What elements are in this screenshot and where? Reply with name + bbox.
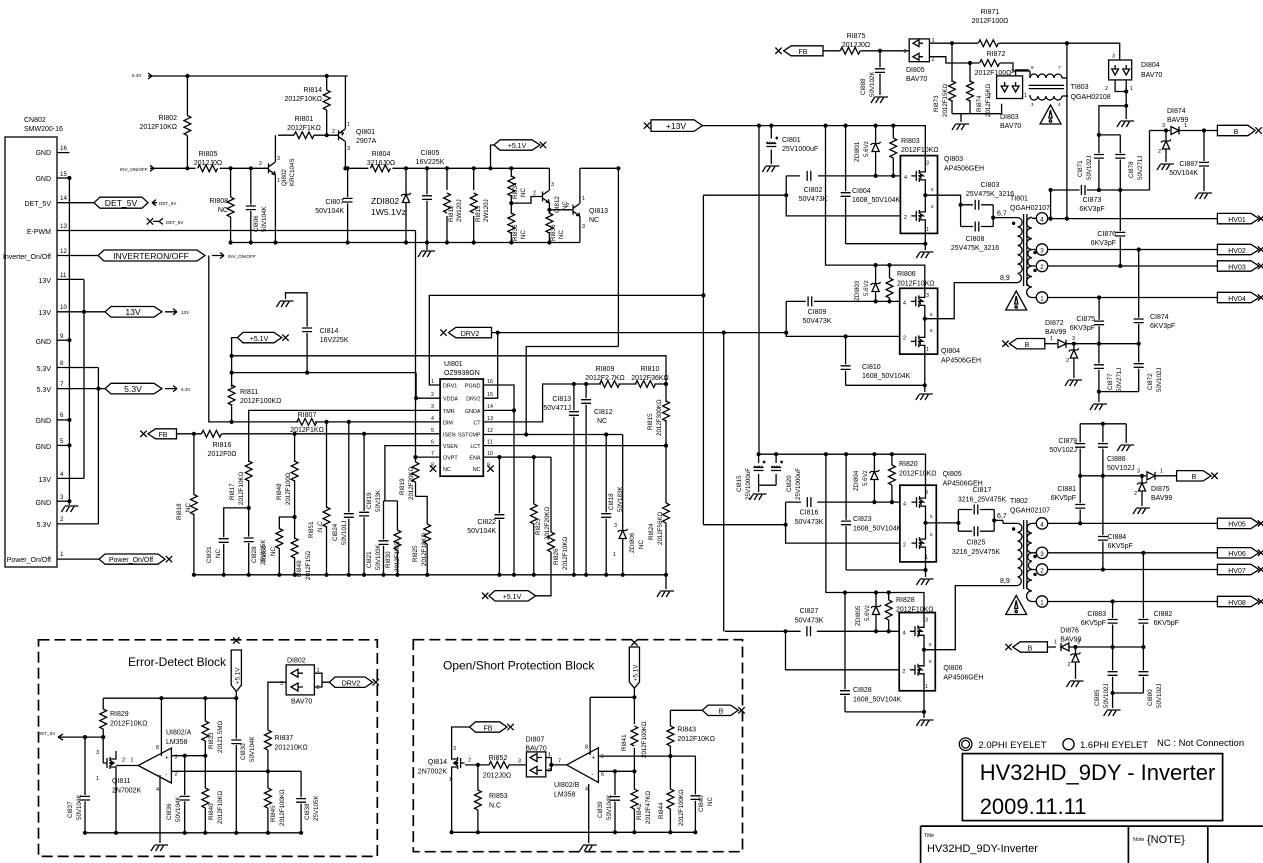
pin 11 13V [39,272,84,285]
wire DI802 to DRV2 [314,673,329,687]
resistor RI803 [890,126,939,178]
pin 15 GND [35,171,71,183]
resistor RI874 [967,63,992,117]
diode DI874 lower half [1157,128,1174,170]
capacitor CI827 [795,608,824,636]
svg-text:RI814: RI814 [303,87,322,94]
resistor RI875 [840,33,870,54]
capacitor CI871 [1077,135,1104,190]
svg-text:2012F10KΩ: 2012F10KΩ [562,536,569,570]
resistor RI872 [975,51,1012,77]
svg-text:QI803: QI803 [944,156,963,163]
svg-text:RI818: RI818 [176,503,183,520]
svg-text:8,9: 8,9 [1000,275,1010,282]
svg-text:RI853: RI853 [489,793,508,800]
svg-text:6,7: 6,7 [997,513,1007,520]
svg-text:CI818: CI818 [608,493,615,510]
svg-text:B: B [719,709,724,716]
svg-text:3: 3 [904,49,907,55]
eyelet 2.0PHI symbol [959,738,972,751]
svg-text:1: 1 [449,777,452,783]
capacitor CI807 [315,166,352,244]
capacitor CI821 [366,501,389,577]
svg-text:RI801: RI801 [295,116,314,123]
svg-text:6KV3pF: 6KV3pF [1091,240,1116,247]
svg-text:RI807: RI807 [298,412,317,419]
svg-text:8: 8 [585,745,588,751]
svg-text:2012F10KΩ: 2012F10KΩ [110,721,148,728]
svg-text:CN802: CN802 [24,117,46,124]
transistor QI811 2N7002K [96,737,142,835]
capacitor CI875 [1070,298,1104,344]
op-amp UI802/B [554,745,604,799]
wire VDDA pin2 [232,373,441,399]
wire +13V rail [702,126,925,156]
wire 13V to QI806 drain rail [826,454,924,612]
svg-text:5.3V: 5.3V [132,73,142,78]
svg-text:5.6Vz: 5.6Vz [862,470,869,486]
resistor RI853 NC [475,765,508,835]
wire QI804 pin1 ground [846,354,925,392]
wire DRV1 pin1 up and right [429,295,703,385]
svg-text:CIB24: CIB24 [332,523,339,541]
svg-text:HV08: HV08 [1228,600,1246,607]
svg-text:CI809: CI809 [808,309,827,316]
svg-text:+5.1V: +5.1V [632,664,639,681]
svg-text:1.6PHI EYELET: 1.6PHI EYELET [1080,740,1148,751]
svg-text:RI802: RI802 [158,115,177,122]
capacitor CI887 [1169,128,1209,191]
node HV03 flag [1217,261,1263,272]
node B flag bottom [1005,642,1047,653]
wire open/short bottom rail [452,832,696,843]
svg-text:50V183K: 50V183K [617,486,624,512]
svg-text:CI836: CI836 [166,803,173,820]
wire coupling row y190 [1051,131,1150,191]
node HV08 flag [1217,596,1263,607]
svg-text:RI809: RI809 [596,366,615,373]
svg-text:4: 4 [904,175,907,181]
svg-text:NC: NC [215,549,222,558]
capacitor CI837 [67,737,90,835]
svg-text:Power_On/Off: Power_On/Off [7,557,51,564]
svg-text:4: 4 [585,787,588,793]
wire CI885 CI880 join ground [1113,693,1144,708]
resistor RI818 NC [176,434,197,577]
svg-text:14: 14 [487,404,493,410]
svg-text:N.C: N.C [317,521,324,532]
svg-text:HV02: HV02 [1228,248,1246,255]
svg-text:CI840: CI840 [698,795,705,812]
svg-text:4: 4 [60,471,64,478]
svg-text:CI871: CI871 [1077,160,1084,177]
zener ZDI806 NC [613,435,645,577]
svg-text:50V33K: 50V33K [375,489,382,512]
capacitor CI888 [860,51,885,97]
svg-text:AP4506GEH: AP4506GEH [941,358,981,365]
svg-text:2: 2 [1134,491,1137,497]
ground error block [151,845,168,851]
wire FB to ISEN pin5 [177,433,441,435]
wire opamp pin2 [171,770,301,772]
svg-text:2012J0Ω: 2012J0Ω [842,42,870,49]
svg-text:3: 3 [277,156,280,162]
zener ZDI803 [854,265,881,303]
capacitor CI823 [841,454,928,577]
wire DI807 join to opamp [546,758,567,771]
wire PGND GNDA ground column [483,385,514,575]
capacitor CI886 [1098,424,1135,476]
node HV02 flag [1217,244,1263,255]
wire gate loop and pin2 [703,176,900,216]
svg-text:1: 1 [925,555,928,561]
svg-text:DI807: DI807 [526,737,545,744]
svg-text:ZDI806: ZDI806 [629,532,636,553]
svg-text:B: B [1234,129,1239,136]
svg-text:50V271J: 50V271J [1137,156,1144,180]
svg-text:3: 3 [96,750,99,756]
svg-text:50V271J: 50V271J [1116,368,1123,392]
node B flag top [1217,125,1261,136]
svg-text:+5.1V: +5.1V [508,143,527,150]
capacitor CI840 NC [690,791,714,834]
svg-text:CI887: CI887 [1179,161,1198,168]
svg-text:BAV99: BAV99 [1167,117,1188,124]
svg-text:INV_ON/OFF: INV_ON/OFF [120,167,148,172]
svg-text:2: 2 [1068,662,1071,668]
diode DI876 BAV99 [1054,628,1082,652]
svg-text:INV_ON/OFF: INV_ON/OFF [228,254,256,259]
svg-text:2012F10KΩ: 2012F10KΩ [238,471,245,505]
resistor RI812 2W120J [444,166,463,244]
svg-text:14: 14 [60,195,67,202]
svg-text:2012J0Ω: 2012J0Ω [194,160,222,167]
capacitor CI873 [1079,185,1104,213]
node B flag block [670,705,744,716]
svg-text:5: 5 [601,754,604,760]
diode DI874 BAV99 [1150,108,1218,135]
svg-text:12: 12 [487,428,493,434]
capacitor CI824 [332,422,354,577]
svg-text:TI802: TI802 [1010,498,1028,505]
svg-text:1: 1 [277,178,280,184]
svg-text:NC: NC [558,230,565,239]
svg-text:25V1000uF: 25V1000uF [782,146,818,153]
svg-text:2: 2 [1105,86,1108,92]
svg-text:RI843: RI843 [677,727,696,734]
transistor QI801 2907A [332,76,377,170]
svg-text:CI801: CI801 [782,137,801,144]
svg-text:RI825: RI825 [412,545,419,562]
wire CT pin13 chain [483,384,666,422]
wire HV04 row [1048,297,1218,299]
svg-text:7: 7 [558,759,561,765]
svg-text:50V473K: 50V473K [803,318,832,325]
svg-text:CI831: CI831 [206,546,213,563]
svg-text:3: 3 [926,161,929,167]
svg-text:6KV3pF: 6KV3pF [1079,206,1104,213]
wire QI806 pin2 [786,631,900,670]
resistor RI841 [621,697,648,773]
wire RI873 RI874 join + ground [952,104,1002,122]
svg-text:QI811: QI811 [112,778,131,785]
svg-text:1: 1 [131,758,134,764]
node Power_On/Off flag [99,554,172,564]
svg-text:DRV2: DRV2 [466,397,480,403]
svg-text:RI828: RI828 [896,597,915,604]
svg-text:2012F100Ω: 2012F100Ω [285,472,292,505]
resistor RI837 [265,682,308,771]
wire opamp pin5 [598,756,695,791]
node 5.3V flag [105,383,162,394]
resistor RI826 [536,457,569,596]
svg-text:DI872: DI872 [1045,320,1064,327]
svg-text:5: 5 [930,312,933,317]
svg-text:RI815: RI815 [647,413,654,430]
svg-text:50V104K: 50V104K [261,206,268,232]
wire CI809 gate row [786,300,900,302]
svg-text:1: 1 [925,684,928,690]
transistor QI813 NC [549,168,608,242]
svg-text:CI884: CI884 [1108,534,1127,541]
svg-text:VDDA: VDDA [443,397,458,403]
capacitor CI820 electrolytic [771,454,802,500]
svg-text:RI826: RI826 [553,548,560,565]
svg-text:5.6Vz: 5.6Vz [864,605,871,621]
eyelet 1.6PHI symbol [1063,739,1074,750]
node HV07 flag [1217,564,1263,575]
capacitor CI819 [359,434,382,577]
svg-text:UI801: UI801 [444,361,463,368]
svg-text:3216_25V475K: 3216_25V475K [958,497,1007,504]
svg-text:2: 2 [431,392,434,398]
wire error bottom rail [85,833,301,843]
svg-text:HV07: HV07 [1228,568,1246,575]
svg-text:25V475K_3216: 25V475K_3216 [951,245,999,252]
resistor RI835 NC [508,201,527,245]
svg-text:1: 1 [1160,469,1163,475]
node DRV2 flag [440,327,491,338]
svg-text:3: 3 [1072,336,1075,342]
svg-text:QI806: QI806 [943,665,962,672]
svg-text:CI812: CI812 [594,409,613,416]
svg-text:50V473K: 50V473K [795,519,824,526]
svg-text:DET_5V: DET_5V [25,201,52,208]
resistor RI833 [202,698,224,756]
capacitor CI817 [958,487,1007,515]
diode DI875 lower half [1133,474,1150,514]
svg-text:CI839: CI839 [597,801,604,818]
svg-text:4: 4 [1058,102,1061,107]
op-amp UI802/A [138,730,192,794]
diode DI872 BAV99 [1045,320,1139,348]
svg-text:OZ9938GN: OZ9938GN [444,370,480,377]
svg-text:2012F10KΩ: 2012F10KΩ [897,281,935,288]
svg-text:2N7002K: 2N7002K [418,769,448,776]
svg-text:25V1000uF: 25V1000uF [745,468,752,500]
svg-text:GND: GND [35,150,51,157]
svg-text:GND: GND [35,339,51,346]
resistor RI829 [100,698,148,739]
node FB flag block [470,722,514,733]
svg-text:2012J0Ω: 2012J0Ω [483,773,511,780]
svg-text:KRC104S: KRC104S [289,158,296,186]
svg-text:{NOTE}: {NOTE} [1147,834,1185,846]
svg-text:50V473K: 50V473K [795,618,824,625]
wire TMR pin3 [249,410,440,461]
svg-text:NC: NC [520,188,527,197]
mosfet pair QI806 AP4506GEH [899,613,983,691]
pin 13 E-PWM [27,223,416,236]
wire bottom rail y242 [231,242,580,244]
svg-text:DI804: DI804 [1141,62,1160,69]
svg-text:50V101J: 50V101J [341,521,348,545]
resistor RI801 [278,116,336,139]
wire rail to SSTCMP loop [526,168,618,434]
wire +5.1V rail to CT chain [232,356,666,384]
wire VSEN pin6 [384,446,441,501]
svg-text:2N7002K: 2N7002K [112,788,142,795]
svg-text:1W5.1Vz: 1W5.1Vz [371,207,406,217]
capacitor CI885 [1094,647,1118,708]
ground below DI804 [1117,121,1134,127]
op-amp U801 OZ9938GN box [440,379,483,476]
resistor RI814 [284,74,330,137]
node FB flag [140,429,176,439]
svg-text:13V: 13V [39,477,52,484]
svg-text:BAV70: BAV70 [1141,72,1162,79]
svg-text:-: - [165,771,167,778]
svg-text:DIM: DIM [443,420,453,426]
svg-text:Error-Detect Block: Error-Detect Block [128,655,227,669]
wire QI814 to RI852 [465,764,489,766]
svg-text:DI805: DI805 [906,67,925,74]
svg-text:50V104K: 50V104K [76,794,83,820]
pin 9 GND [35,333,71,346]
svg-text:5: 5 [930,514,933,519]
wire lower 13V rail [759,454,926,485]
ground open/short block [580,845,597,851]
ground below CI888 [871,97,888,103]
ground below QI804 [916,394,933,400]
svg-text:DET_5V: DET_5V [105,198,138,208]
svg-text:2012F100KΩ: 2012F100KΩ [279,789,286,826]
svg-text:NC: NC [638,540,645,549]
svg-text:CI828: CI828 [853,687,872,694]
wire DI805 pin1 row [929,43,1119,60]
svg-text:CI886: CI886 [1107,456,1126,463]
dual diode DI805 BAV70 [904,38,935,83]
warning triangle TI801 [1006,291,1027,310]
capacitor CI880 [1138,647,1163,708]
svg-text:1608_50V104K: 1608_50V104K [862,373,911,380]
svg-text:TMR: TMR [443,409,455,415]
pin 16 GND [35,145,69,157]
ground below QI805 [917,579,934,585]
mosfet pair QI803 AP4506GEH [900,156,984,234]
svg-text:RI805: RI805 [199,151,218,158]
svg-text:RI837: RI837 [275,735,294,742]
pin 2 5.3V [37,516,99,529]
svg-text:5.3V: 5.3V [37,522,52,529]
svg-text:BAV70: BAV70 [525,746,546,753]
capacitor CI802 [799,171,828,203]
svg-text:TI801: TI801 [1010,196,1028,203]
capacitor CI803 [961,182,1015,210]
svg-text:4: 4 [1040,521,1044,528]
svg-text:AP4506GEH: AP4506GEH [944,166,984,173]
svg-text:HV03: HV03 [1228,264,1246,271]
svg-text:RI823: RI823 [535,518,542,535]
svg-text:PGND: PGND [465,384,481,390]
svg-text:50V102J: 50V102J [1049,447,1077,454]
capacitor CI810 [841,334,911,385]
svg-text:3: 3 [1031,102,1034,107]
svg-text:50V104K: 50V104K [606,794,613,820]
resistor RI845 [265,771,287,835]
svg-text:50V104K: 50V104K [1169,170,1198,177]
svg-text:2: 2 [903,543,906,549]
wire HV01 row [1048,43,1218,218]
svg-text:RI848: RI848 [276,483,283,500]
svg-text:9: 9 [1031,65,1034,70]
svg-text:9: 9 [60,333,64,340]
svg-text:CI827: CI827 [800,608,819,615]
svg-text:CI814: CI814 [320,328,339,335]
svg-text:2: 2 [988,93,991,99]
svg-text:6: 6 [601,772,604,778]
svg-text:CI813: CI813 [552,396,571,403]
svg-text:CI876: CI876 [1097,231,1116,238]
resistor RI850 NC [261,517,295,577]
error-detect dashed box [39,640,378,857]
svg-text:RI844: RI844 [658,802,665,819]
svg-text:2: 2 [468,758,471,764]
svg-text:50V104K: 50V104K [249,736,256,762]
pin 3 GND [35,494,71,507]
svg-text:2012F300KΩ: 2012F300KΩ [656,399,663,436]
node +5.1V vertical flag block [629,639,639,697]
svg-text:QI801: QI801 [356,129,375,136]
svg-text:BAV70: BAV70 [1000,123,1021,130]
resistor RI813 2W120J [470,166,490,244]
svg-text:3: 3 [347,146,350,152]
svg-text:1: 1 [1130,86,1133,92]
svg-text:6KV3pF: 6KV3pF [1150,323,1175,330]
svg-text:5: 5 [931,204,934,209]
svg-text:1608_50V104K: 1608_50V104K [853,526,902,533]
svg-text:5: 5 [60,438,64,445]
svg-text:B: B [1192,474,1197,481]
svg-text:2: 2 [904,215,907,221]
drawing frame table [921,826,1263,863]
svg-text:50V471J: 50V471J [543,405,571,412]
svg-text:16V225K: 16V225K [416,159,445,166]
wire HV08 row [1048,601,1218,603]
svg-text:LCT: LCT [470,444,481,450]
svg-text:6KV5pF: 6KV5pF [1051,495,1076,502]
node HV06 flag [1217,548,1263,559]
svg-text:CI822: CI822 [477,519,496,526]
svg-text:CI821: CI821 [366,551,373,568]
svg-text:GND: GND [35,176,51,183]
svg-text:1: 1 [1024,93,1027,99]
svg-text:CI805: CI805 [421,150,440,157]
svg-text:GND: GND [35,444,51,451]
svg-text:2907A: 2907A [356,138,377,145]
capacitor CI812 NC [581,384,613,577]
svg-text:2012F15KΩ: 2012F15KΩ [985,83,992,117]
